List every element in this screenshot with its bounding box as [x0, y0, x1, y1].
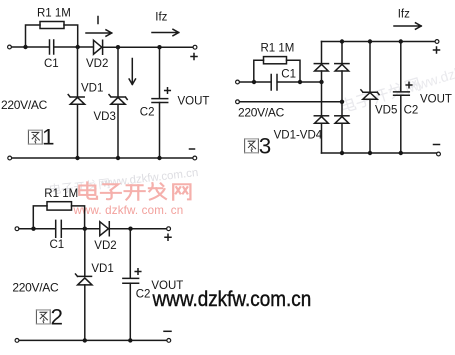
wire R1 right leg — [64, 25, 78, 46]
svg-text:VD1: VD1 — [91, 263, 113, 275]
capacitor C1 — [271, 75, 277, 91]
bottom rail — [12, 157, 193, 159]
wire R1 right leg — [287, 60, 301, 81]
svg-text:1: 1 — [42, 125, 55, 150]
terminal output plus — [193, 45, 197, 49]
svg-text:C2: C2 — [140, 106, 155, 118]
zener diode VD1 — [78, 278, 92, 285]
minus sign output — [164, 330, 171, 332]
wire C2 branch lower — [129, 283, 131, 340]
resistor R1 — [264, 57, 287, 64]
junction VD3 bottom — [116, 156, 120, 160]
capacitor C2 electrolytic — [152, 99, 168, 103]
label 图3 — [245, 139, 259, 153]
current arrow down through VD3 — [129, 59, 135, 85]
node B (after C1) — [76, 45, 80, 49]
label 图1 — [28, 130, 42, 144]
terminal bottom-left — [8, 156, 12, 160]
node C (bridge right mid) — [340, 100, 344, 104]
resistor R1 — [40, 22, 64, 29]
wire VD1 branch upper — [77, 47, 79, 97]
wire VD5 lower — [369, 99, 371, 153]
node A (R1 tap) — [31, 227, 35, 231]
svg-text:C2: C2 — [136, 289, 151, 301]
node C (C2 top) — [128, 227, 132, 231]
plus sign output — [191, 54, 197, 60]
wire R1 left leg — [26, 25, 41, 46]
junction bridge-right bottom — [340, 151, 344, 155]
wire input lower to bridge right — [240, 101, 343, 103]
wire VD1 branch lower — [77, 104, 79, 158]
svg-text:2: 2 — [51, 304, 64, 329]
bridge diode bottom-right — [335, 117, 349, 124]
wire C1 to bridge — [277, 81, 321, 83]
wire C2 lower — [400, 95, 402, 153]
wire R1 left leg — [33, 206, 47, 228]
wire VD5 upper — [369, 42, 371, 92]
bridge diode bottom-left — [315, 117, 329, 124]
wire C1 to VD2 — [62, 228, 100, 230]
diode VD2 — [94, 40, 103, 54]
wire VD3 branch upper — [117, 47, 119, 97]
svg-text:R1 1M: R1 1M — [261, 43, 295, 55]
zener diode VD3 — [111, 97, 125, 104]
svg-text:220V/AC: 220V/AC — [1, 98, 48, 112]
wire input to C1 — [240, 81, 272, 83]
svg-text:220V/AC: 220V/AC — [238, 105, 285, 119]
svg-text:VD1-VD4: VD1-VD4 — [274, 130, 323, 142]
current arrow Ifz — [394, 23, 421, 29]
capacitor C1 — [56, 220, 62, 237]
node C (VD3 top) — [116, 45, 120, 49]
zener diode VD5 — [363, 93, 377, 100]
terminal input top-left — [8, 45, 12, 49]
svg-text:C2: C2 — [404, 104, 419, 116]
plus sign C2 — [165, 88, 171, 94]
plus sign output — [165, 234, 171, 240]
svg-text:C1: C1 — [281, 68, 296, 80]
svg-text:www. dzkfw. com. cn: www. dzkfw. com. cn — [73, 204, 184, 217]
terminal input top — [15, 227, 19, 231]
svg-text:VD3: VD3 — [94, 111, 116, 123]
svg-text:VOUT: VOUT — [151, 280, 183, 292]
current arrow I — [86, 30, 112, 36]
node top bridge-right — [340, 39, 344, 43]
wire C2 branch lower — [159, 103, 161, 159]
node B (VD1 tap) — [83, 227, 87, 231]
svg-text:VD5: VD5 — [375, 104, 397, 116]
terminal bottom-right — [167, 339, 171, 343]
junction VD1 bottom — [75, 156, 79, 160]
bridge right vertical lower — [341, 102, 343, 153]
minus sign output — [434, 144, 440, 146]
resistor R1 — [47, 202, 72, 210]
svg-text:C1: C1 — [44, 58, 59, 70]
svg-text:VOUT: VOUT — [178, 95, 210, 107]
top rail — [322, 41, 436, 43]
svg-text:www.dzkfw.com: www.dzkfw.com — [405, 51, 455, 95]
wire R1 left leg — [254, 60, 264, 81]
svg-text:Ifz: Ifz — [155, 12, 167, 24]
terminal bottom-left — [15, 339, 19, 343]
svg-text:R1 1M: R1 1M — [37, 7, 71, 19]
svg-text:Ifz: Ifz — [398, 9, 410, 21]
junction C2 bottom — [128, 338, 132, 342]
node top VD5 — [368, 39, 372, 43]
wire VD1 branch lower — [84, 285, 86, 341]
label 图2 — [36, 310, 50, 324]
node A (C1 left / R1 tap) — [23, 45, 27, 49]
current arrow Ifz — [152, 29, 179, 35]
plus sign output — [434, 47, 440, 53]
terminal input lower — [236, 100, 240, 104]
bridge diode top-left — [315, 64, 329, 71]
node D (C2 top) — [157, 45, 161, 49]
bridge right vertical upper — [341, 42, 343, 102]
capacitor C1 — [50, 40, 54, 54]
junction VD1 bottom — [83, 338, 87, 342]
node B (bridge left mid) — [298, 80, 302, 84]
wire input to C1 — [12, 46, 50, 48]
node A (R1 tap) — [252, 80, 256, 84]
svg-text:3: 3 — [259, 133, 272, 158]
capacitor C2 electrolytic — [394, 92, 410, 95]
wire R1 right leg — [72, 206, 85, 228]
junction C2 bottom — [157, 156, 161, 160]
terminal bottom-right — [193, 156, 197, 160]
bottom rail — [19, 339, 167, 341]
bottom rail — [322, 152, 437, 154]
svg-text:VOUT: VOUT — [420, 93, 452, 105]
svg-text:C1: C1 — [50, 239, 65, 251]
wire C2 upper — [400, 42, 402, 92]
junction C2 bottom — [399, 151, 403, 155]
minus sign output — [190, 148, 195, 150]
plus sign C2 — [135, 269, 141, 275]
svg-text:220V/AC: 220V/AC — [12, 280, 59, 294]
bridge left vertical lower — [321, 82, 323, 153]
junction VD5 bottom — [368, 151, 372, 155]
wire VD2 to output — [110, 228, 167, 230]
wire C2 branch upper — [159, 47, 161, 98]
node top C2 — [399, 39, 403, 43]
wire VD1 branch upper — [84, 229, 86, 276]
zener diode VD1 — [70, 97, 84, 104]
wire C1 to VD2 — [54, 46, 93, 48]
terminal input upper — [236, 80, 240, 84]
diode VD2 — [100, 222, 110, 236]
capacitor C2 electrolytic — [123, 278, 139, 283]
svg-text:VD1: VD1 — [81, 82, 103, 94]
bridge diode top-right — [335, 64, 349, 71]
terminal output plus — [167, 227, 171, 231]
wire VD3 branch lower — [117, 104, 119, 158]
svg-text:VD2: VD2 — [86, 58, 108, 70]
plus sign C2 — [406, 82, 412, 88]
svg-text:R1 1M: R1 1M — [44, 188, 78, 200]
terminal output plus — [435, 40, 439, 44]
bridge left vertical upper — [321, 42, 323, 83]
svg-text:VD2: VD2 — [94, 240, 116, 252]
wire input to C1 — [19, 228, 56, 230]
current label I — [97, 17, 99, 24]
wire C2 branch upper — [129, 229, 131, 279]
terminal output minus — [437, 152, 441, 156]
wire VD2 to output — [103, 46, 193, 48]
